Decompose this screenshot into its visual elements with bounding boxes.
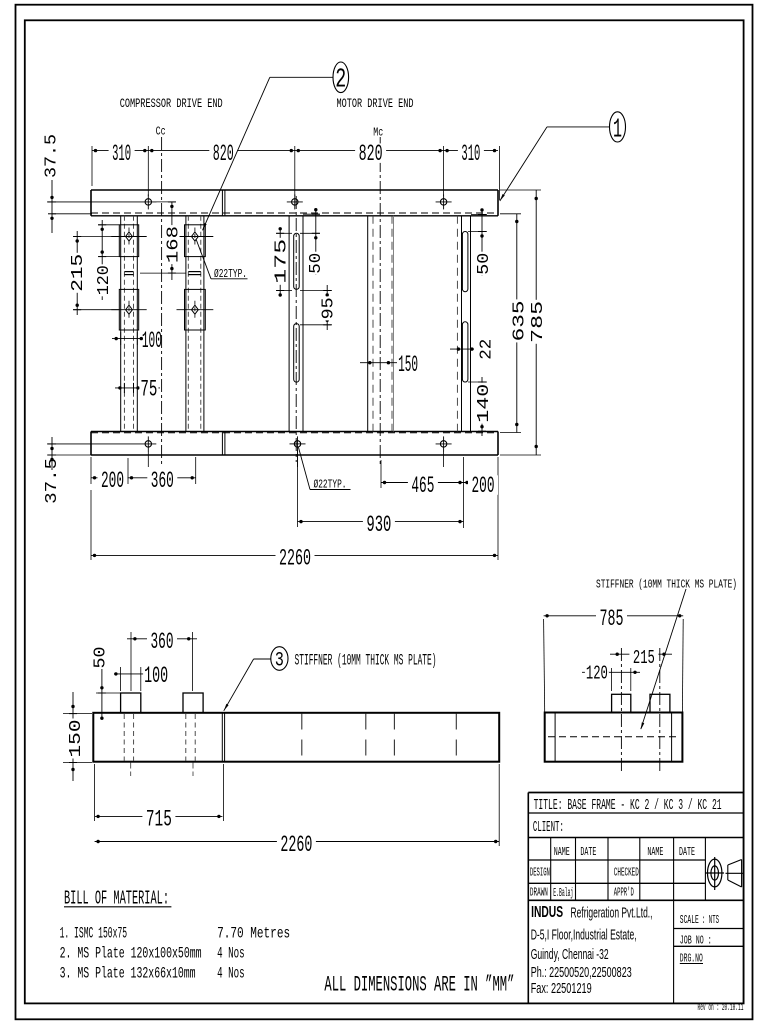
- drg no cell: [680, 953, 703, 966]
- svg-text:37.5: 37.5: [43, 458, 62, 504]
- side view hidden cross members: [302, 714, 457, 762]
- svg-text:Ø22TYP.: Ø22TYP.: [314, 478, 347, 492]
- dim 785 frame outer width: [500, 190, 548, 455]
- svg-text:3. MS Plate 132x66x10mm: 3. MS Plate 132x66x10mm: [60, 965, 196, 983]
- dim 930: [298, 450, 464, 538]
- svg-text:2260: 2260: [280, 832, 312, 858]
- svg-text:360: 360: [151, 468, 174, 494]
- balloon 2 leader: [203, 77, 334, 230]
- end view stiffener tab 2: [650, 694, 670, 712]
- svg-text:Fax: 22501219: Fax: 22501219: [531, 980, 592, 997]
- svg-text:715: 715: [146, 807, 172, 833]
- svg-text:COMPRESSOR DRIVE END: COMPRESSOR DRIVE END: [120, 96, 223, 111]
- svg-text:Ø22TYP.: Ø22TYP.: [214, 267, 247, 281]
- third angle projection symbol: [706, 857, 745, 890]
- svg-text:7.70 Metres: 7.70 Metres: [217, 925, 290, 943]
- svg-text:: NTS: : NTS: [702, 914, 719, 927]
- title block grid: [528, 793, 743, 1004]
- hole top rail right (phi22): [440, 199, 446, 205]
- svg-text:CLIENT:: CLIENT:: [533, 819, 564, 836]
- svg-text:635: 635: [510, 300, 529, 341]
- svg-text:NAME: NAME: [647, 846, 663, 859]
- cross member A with stiffener plates (compressor end): [111, 216, 146, 432]
- svg-text:50: 50: [475, 253, 494, 275]
- svg-text:100: 100: [144, 663, 168, 689]
- INDUS company text: [531, 904, 653, 997]
- dim 50 right slot offset: [468, 208, 494, 276]
- dim 37.5 bottom left: [43, 437, 91, 504]
- svg-text:150: 150: [398, 352, 418, 378]
- dim 120 plate A1: [95, 220, 119, 300]
- balloon 1: [610, 112, 626, 146]
- centerline Cc compressor: [161, 137, 163, 467]
- balloon 1 leader: [500, 127, 610, 201]
- svg-text:1: 1: [613, 115, 622, 145]
- dim 37.5 top left: [43, 134, 93, 233]
- dim 360 tab centers side: [127, 629, 197, 691]
- svg-text:215: 215: [69, 254, 88, 292]
- svg-text:95: 95: [320, 297, 339, 319]
- svg-text:Ph.: 22500520,22500823: Ph.: 22500520,22500823: [531, 964, 632, 981]
- hole top rail middle (phi22): [292, 199, 298, 205]
- dim chain 200/360 bottom left: [91, 457, 196, 494]
- end view: frame channel: [545, 713, 683, 762]
- svg-text:Refrigeration Pvt.Ltd.,: Refrigeration Pvt.Ltd.,: [571, 905, 653, 922]
- svg-text:CHECKED: CHECKED: [614, 867, 639, 880]
- svg-text:MOTOR DRIVE END: MOTOR DRIVE END: [337, 96, 414, 111]
- svg-text:INDUS: INDUS: [531, 904, 563, 921]
- svg-text:DESIGN: DESIGN: [530, 867, 550, 880]
- label phi22TYP lower with leader: [299, 448, 351, 492]
- svg-text:310: 310: [112, 141, 131, 167]
- svg-text:Cc: Cc: [156, 125, 166, 139]
- dim 50 middle slot offset: [300, 208, 326, 275]
- svg-text:TITLE: BASE FRAME - KC 2 / KC: TITLE: BASE FRAME - KC 2 / KC 3 / KC 21: [534, 797, 722, 814]
- hole top rail left (phi22): [145, 199, 151, 205]
- dim 785 end view: [544, 606, 684, 712]
- svg-text:37.5: 37.5: [43, 134, 62, 178]
- svg-text:DRAWN: DRAWN: [530, 887, 548, 900]
- balloon 3: [271, 647, 288, 673]
- balloon 2: [333, 62, 349, 96]
- dim chain 310/820/820/310 top: [92, 141, 500, 200]
- svg-text:2. MS Plate 120x100x50mm: 2. MS Plate 120x100x50mm: [60, 945, 202, 963]
- dim 215 member A bolts: [69, 231, 119, 315]
- svg-text:360: 360: [151, 629, 174, 655]
- side view stiffener tab 1: [121, 693, 141, 713]
- side view stiffener tab 2: [183, 693, 203, 713]
- dim 50 tab height side: [92, 647, 120, 720]
- svg-text:Mc: Mc: [373, 126, 383, 140]
- svg-text:820: 820: [359, 141, 383, 167]
- bill item 1: [60, 925, 291, 943]
- hole bottom rail left (phi22): [145, 441, 151, 447]
- side view splice joint: [222, 713, 224, 762]
- bill of material heading: [64, 888, 171, 910]
- dim 168: [140, 202, 186, 280]
- side elevation: frame channel: [93, 713, 499, 762]
- svg-text:785: 785: [529, 301, 548, 343]
- svg-text:NAME: NAME: [554, 846, 570, 859]
- dim 95 between slots: [300, 285, 339, 330]
- end view tab centerlines: [621, 648, 659, 773]
- svg-text:50: 50: [307, 253, 326, 274]
- dim 120 end view: [582, 663, 640, 691]
- centerline Mc motor: [379, 137, 381, 467]
- middle cross member with slotted holes: [289, 196, 303, 462]
- svg-text:Rev on : 20.10.11: Rev on : 20.10.11: [698, 1002, 744, 1014]
- svg-text:175: 175: [273, 239, 292, 284]
- right cross member with slotted holes: [457, 216, 470, 432]
- svg-text:150: 150: [67, 720, 86, 758]
- svg-text:E.Balaj: E.Balaj: [553, 886, 573, 900]
- side view hidden plate edges below tab2: [186, 714, 195, 776]
- label STIFFNER end view with leader: [596, 579, 737, 730]
- svg-text:120: 120: [586, 663, 608, 685]
- svg-text:STIFFNER (10MM THICK MS PLATE): STIFFNER (10MM THICK MS PLATE): [596, 579, 737, 592]
- svg-text:3: 3: [275, 650, 284, 673]
- svg-text:785: 785: [600, 606, 624, 632]
- svg-text:168: 168: [165, 226, 184, 263]
- hole bottom rail right (phi22): [440, 441, 446, 447]
- dim 150 side height: [63, 692, 92, 781]
- svg-text:100: 100: [142, 328, 162, 354]
- end view stiffener tab 1: [612, 694, 631, 712]
- svg-text:2: 2: [335, 66, 346, 96]
- balloon 3 leader: [224, 659, 271, 711]
- dim 635 frame inner width: [500, 214, 529, 433]
- dim 2260 side: [95, 764, 500, 858]
- dim 100 member A width: [112, 328, 162, 354]
- label phi22TYP upper with leader: [196, 239, 248, 281]
- svg-text:Guindy, Chennai -32: Guindy, Chennai -32: [531, 946, 609, 963]
- dim 2260 plan: [91, 490, 498, 572]
- table row DRAWN/APPRD: [530, 886, 634, 900]
- bill item 2: [60, 945, 245, 963]
- svg-text:50: 50: [92, 647, 111, 669]
- svg-text:DATE: DATE: [580, 846, 596, 859]
- bill item 3: [60, 965, 245, 983]
- dim 100 tab width side: [114, 663, 170, 691]
- svg-text:2260: 2260: [279, 546, 311, 572]
- svg-text:465: 465: [411, 473, 434, 499]
- dim 22 slot width: [450, 338, 497, 361]
- svg-text:4 Nos: 4 Nos: [217, 965, 245, 983]
- svg-text:APPR'D: APPR'D: [614, 887, 634, 900]
- svg-text:820: 820: [213, 141, 234, 167]
- dim 150 motor member: [360, 352, 418, 378]
- svg-text:215: 215: [633, 647, 655, 669]
- svg-text:DATE: DATE: [679, 846, 695, 859]
- table row DESIGN/CHECKED: [530, 867, 639, 880]
- svg-text:D-5,I Floor,Industrial Estate,: D-5,I Floor,Industrial Estate,: [531, 927, 637, 944]
- dim 140 right slot to rail: [468, 377, 494, 436]
- hole bottom rail middle (phi22): [294, 441, 300, 447]
- motor cross member Mc: [368, 216, 394, 432]
- side view hidden plate edges below tab1: [124, 714, 133, 776]
- svg-text:JOB NO :: JOB NO :: [680, 935, 712, 948]
- svg-text:120: 120: [95, 265, 114, 295]
- dim 215 end view: [610, 647, 672, 670]
- plan view: bottom rail ISMC channel: [91, 432, 498, 456]
- scale cell: [680, 914, 719, 927]
- svg-text:75: 75: [140, 377, 157, 403]
- svg-text:SCALE: SCALE: [680, 914, 699, 927]
- svg-text:310: 310: [461, 141, 480, 167]
- plan view: top rail ISMC channel: [91, 190, 498, 216]
- dim 715: [95, 764, 224, 833]
- dim chain 465/200 bottom right: [381, 457, 498, 560]
- svg-text:140: 140: [475, 384, 494, 423]
- svg-text:STIFFNER (10MM THICK MS PLATE): STIFFNER (10MM THICK MS PLATE): [295, 652, 437, 670]
- cross member B with stiffener plates (compressor end): [177, 216, 214, 432]
- svg-text:930: 930: [366, 512, 391, 538]
- svg-text:4 Nos: 4 Nos: [217, 945, 245, 963]
- svg-text:ALL DIMENSIONS ARE IN ”MM”: ALL DIMENSIONS ARE IN ”MM”: [324, 973, 514, 998]
- svg-text:1. ISMC 150x75: 1. ISMC 150x75: [60, 925, 128, 943]
- table header NAME DATE: [554, 846, 695, 859]
- svg-text:200: 200: [472, 473, 495, 499]
- svg-text:22: 22: [478, 339, 497, 360]
- dim 175 middle slot length: [273, 227, 293, 297]
- svg-text:200: 200: [101, 468, 124, 494]
- dim 75 member A dashed width: [115, 377, 160, 403]
